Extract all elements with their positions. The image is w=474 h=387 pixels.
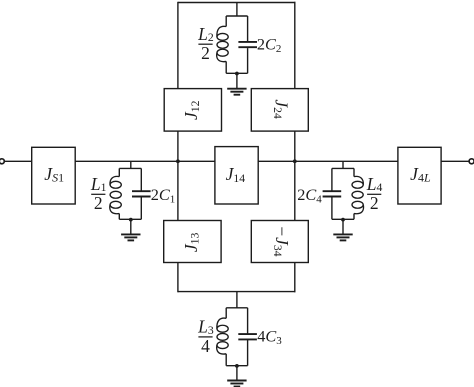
wire: J12 to node A bbox=[177, 131, 179, 161]
value label L3/4 bbox=[197, 317, 214, 356]
wire: resonator 2 top rail bbox=[226, 15, 247, 17]
inverter J13 bbox=[164, 221, 221, 263]
wire: right rail down to J24 bbox=[294, 2, 296, 89]
ground (tank 4) bbox=[333, 220, 352, 241]
value label L1/2 bbox=[90, 174, 107, 213]
inverter J4L bbox=[398, 147, 441, 204]
inverter J24 bbox=[251, 89, 308, 132]
svg-text:L4: L4 bbox=[366, 174, 383, 194]
ground (resonator 3) bbox=[227, 366, 246, 387]
wire: tank 4 top rail bbox=[332, 167, 354, 169]
wire: stem node A to tank 1 bbox=[130, 161, 132, 168]
svg-text:L2: L2 bbox=[197, 24, 214, 44]
node B (junction dot) bbox=[293, 159, 297, 163]
node: resonator 2 ground junction bbox=[235, 72, 239, 76]
inductor L4/2 branch bbox=[352, 168, 364, 219]
terminal: source port bbox=[0, 159, 4, 164]
wire: node B down to J34 bbox=[294, 161, 296, 220]
capacitor 2C2 branch bbox=[238, 16, 257, 73]
wire: J4L to load port bbox=[441, 160, 469, 162]
ground (tank 1) bbox=[121, 220, 140, 241]
wire: tank 4 bottom rail bbox=[332, 218, 354, 220]
wire: J34 down to bottom rail bbox=[294, 263, 296, 293]
inductor L2/2 branch bbox=[217, 16, 229, 73]
node: tank 4 ground junction bbox=[341, 218, 345, 222]
svg-text:2: 2 bbox=[94, 193, 103, 213]
wire: J24 to node B bbox=[294, 131, 296, 161]
wire: J13 down to bottom rail bbox=[177, 263, 179, 293]
terminal: load port bbox=[469, 159, 474, 164]
svg-text:2C4: 2C4 bbox=[297, 185, 322, 205]
inductor L1/2 branch bbox=[110, 168, 122, 219]
wire: resonator 2 bottom rail bbox=[226, 72, 247, 74]
value label L2/2 bbox=[197, 24, 214, 63]
capacitor 2C1 branch bbox=[132, 168, 151, 219]
wire: node A to J14 bbox=[178, 160, 215, 162]
capacitor 4C3 branch bbox=[238, 308, 257, 366]
inverter J12 bbox=[164, 89, 221, 132]
node: resonator 3 ground junction bbox=[235, 364, 239, 368]
node: tank 1 ground junction bbox=[129, 218, 133, 222]
node A (junction dot) bbox=[176, 159, 180, 163]
wire: J14 to node B bbox=[258, 160, 295, 162]
value label 2C2 bbox=[257, 35, 282, 55]
wire: source to JS1 bbox=[4, 160, 31, 162]
wire: stem bottom rail to resonator 3 bbox=[236, 292, 238, 308]
inductor L3/4 branch bbox=[217, 308, 229, 366]
svg-text:4: 4 bbox=[201, 336, 210, 356]
wire: top rail between node 2 stems bbox=[178, 2, 296, 4]
inverter -J34 bbox=[251, 221, 308, 263]
ground (resonator 2) bbox=[227, 74, 246, 95]
value label 2C4 bbox=[297, 185, 322, 205]
value label 4C3 bbox=[257, 327, 282, 347]
svg-text:2C1: 2C1 bbox=[151, 185, 176, 205]
svg-text:2: 2 bbox=[201, 43, 210, 63]
svg-text:4C3: 4C3 bbox=[257, 327, 282, 347]
wire: stem top rail to resonator 2 bbox=[236, 3, 238, 17]
value label L4/2 bbox=[366, 174, 383, 213]
wire: JS1 to node A bbox=[75, 160, 178, 162]
inverter JS1 bbox=[32, 147, 75, 204]
wire: left rail down to J12 bbox=[177, 2, 179, 89]
svg-text:L1: L1 bbox=[90, 174, 107, 194]
svg-text:L3: L3 bbox=[197, 317, 214, 337]
wire: stem node B to tank 4 bbox=[342, 161, 344, 168]
wire: tank 1 top rail bbox=[119, 167, 141, 169]
wire: resonator 3 bottom rail bbox=[226, 365, 247, 367]
wire: resonator 3 top rail bbox=[226, 307, 247, 309]
svg-text:2C2: 2C2 bbox=[257, 35, 282, 55]
capacitor 2C4 branch bbox=[323, 168, 342, 219]
inverter J14 bbox=[215, 147, 258, 204]
wire: tank 1 bottom rail bbox=[119, 218, 141, 220]
svg-text:2: 2 bbox=[370, 193, 379, 213]
wire: node B to J4L bbox=[295, 160, 398, 162]
wire: bottom rail between resonator stems bbox=[178, 291, 296, 293]
wire: node A down to J13 bbox=[177, 161, 179, 220]
value label 2C1 bbox=[151, 185, 176, 205]
